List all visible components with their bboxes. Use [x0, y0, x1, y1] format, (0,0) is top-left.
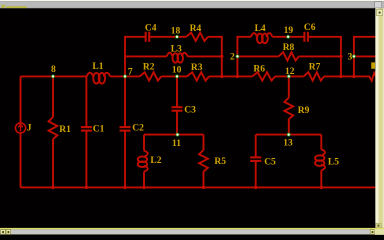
wire bottom rail	[21, 186, 377, 188]
inductor L1	[87, 62, 111, 83]
svg-text:18: 18	[171, 26, 181, 36]
resistor R2	[140, 63, 162, 81]
wire row A section 3	[354, 37, 376, 77]
capacitor C6	[304, 23, 316, 42]
node 11	[172, 133, 181, 149]
wire row A section 1	[125, 37, 146, 77]
svg-text:R7: R7	[309, 63, 321, 73]
wire R9 branch node 12 to node 13	[288, 76, 290, 97]
node 19	[284, 26, 294, 39]
svg-text:10: 10	[172, 65, 182, 75]
current source J	[15, 123, 31, 134]
svg-text:R5: R5	[214, 157, 226, 167]
svg-text:2: 2	[230, 53, 235, 63]
svg-text:C3: C3	[184, 105, 196, 115]
svg-text:L2: L2	[150, 156, 161, 166]
horizontal scrollbar	[0, 229, 384, 235]
wire L5 branch	[320, 135, 322, 150]
inductor L2	[138, 151, 162, 172]
wire C1 branch	[85, 76, 87, 126]
wire node 13 bar	[256, 134, 322, 136]
resistor R5	[199, 150, 226, 172]
resistor R6	[252, 64, 275, 80]
inductor L5	[315, 149, 339, 170]
title bar	[0, 0, 384, 8]
svg-text:C4: C4	[145, 23, 157, 33]
capacitor C5	[250, 157, 276, 167]
capacitor C3	[172, 105, 197, 115]
node 13	[283, 133, 293, 149]
svg-text:19: 19	[284, 26, 294, 36]
svg-text:R2: R2	[143, 63, 155, 73]
svg-text:7: 7	[128, 67, 133, 77]
wire C5 branch	[255, 135, 257, 158]
svg-text:L5: L5	[328, 158, 339, 168]
separator line	[0, 228, 384, 230]
svg-text:C5: C5	[264, 158, 276, 168]
clipped resistor at right edge	[367, 73, 377, 81]
svg-text:R4: R4	[190, 24, 202, 34]
wire C3 branch node 10 to node 11	[176, 76, 178, 107]
resistor R1	[49, 117, 72, 139]
svg-text:12: 12	[285, 67, 295, 77]
wire R1 branch	[52, 76, 54, 117]
capacitor C2	[120, 124, 145, 134]
svg-text:R3: R3	[191, 63, 203, 73]
capacitor C4	[145, 23, 157, 41]
wire C2 branch	[124, 76, 126, 126]
svg-text:L3: L3	[171, 45, 182, 55]
svg-text:11: 11	[172, 139, 181, 149]
svg-text:C1: C1	[93, 125, 105, 135]
svg-text:C2: C2	[132, 124, 144, 134]
node 2	[230, 53, 239, 63]
svg-text:R9: R9	[298, 106, 310, 116]
wire row C main rail	[21, 75, 87, 77]
resistor R8	[279, 43, 299, 61]
svg-text:R8: R8	[283, 43, 295, 53]
capacitor C1	[81, 125, 105, 135]
node 12	[285, 67, 295, 78]
node 18	[171, 26, 181, 38]
svg-text:L1: L1	[92, 62, 103, 72]
node 10	[172, 65, 182, 78]
wire row B section 2 (R8 branch)	[237, 55, 278, 57]
svg-text:8: 8	[51, 65, 56, 75]
svg-text:R1: R1	[59, 125, 71, 135]
node 7	[123, 67, 133, 78]
svg-text:13: 13	[283, 139, 293, 149]
node 3	[348, 53, 356, 63]
svg-text:3: 3	[348, 53, 353, 63]
svg-text:R6: R6	[253, 64, 265, 74]
svg-text:C6: C6	[304, 23, 316, 33]
wire row B section 1 (L3 branch)	[125, 55, 167, 57]
wire row B section 3	[354, 55, 376, 57]
resistor R9	[284, 98, 309, 119]
resistor R3	[187, 63, 209, 80]
svg-text:L4: L4	[255, 24, 266, 34]
wire row A section 2	[237, 37, 251, 77]
wire source J branch	[20, 76, 22, 123]
resistor R7	[304, 63, 324, 81]
inductor L3	[167, 45, 188, 63]
resistor R4	[186, 24, 208, 41]
wire L2 branch	[143, 135, 145, 151]
wire R5 branch	[203, 135, 205, 150]
inductor L4	[251, 24, 273, 43]
wire node 11 bar	[144, 134, 204, 136]
svg-text:J: J	[27, 124, 32, 134]
node 8	[51, 65, 56, 78]
vertical scrollbar	[375, 8, 384, 228]
